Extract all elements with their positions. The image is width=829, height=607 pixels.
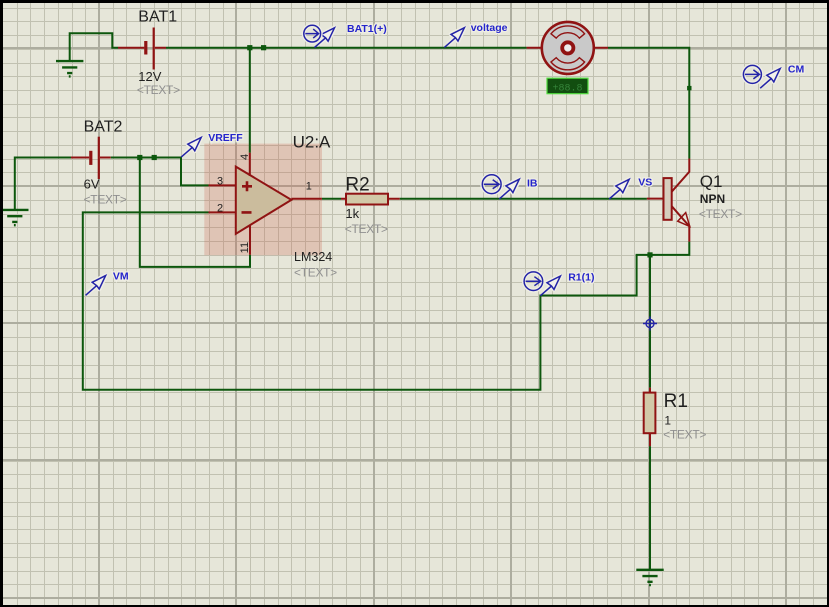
svg-text:VM: VM bbox=[113, 271, 129, 283]
svg-text:NPN: NPN bbox=[700, 192, 725, 206]
svg-text:Q1: Q1 bbox=[700, 172, 723, 191]
svg-text:R2: R2 bbox=[345, 174, 369, 195]
svg-text:6V: 6V bbox=[84, 177, 100, 192]
svg-text:BAT1: BAT1 bbox=[138, 9, 177, 26]
svg-text:U2:A: U2:A bbox=[293, 133, 331, 152]
svg-text:3: 3 bbox=[217, 176, 223, 188]
svg-text:R1: R1 bbox=[664, 391, 688, 412]
svg-text:1: 1 bbox=[664, 414, 671, 428]
svg-text:<TEXT>: <TEXT> bbox=[699, 207, 742, 221]
svg-text:IB: IB bbox=[527, 178, 538, 190]
svg-text:R1(1): R1(1) bbox=[568, 272, 594, 284]
svg-text:<TEXT>: <TEXT> bbox=[137, 83, 180, 97]
svg-text:CM: CM bbox=[788, 63, 805, 75]
svg-text:VREFF: VREFF bbox=[208, 132, 243, 144]
svg-text:BAT1(+): BAT1(+) bbox=[347, 23, 387, 35]
svg-text:LM324: LM324 bbox=[294, 250, 332, 264]
svg-text:<TEXT>: <TEXT> bbox=[345, 222, 388, 236]
svg-text:voltage: voltage bbox=[471, 22, 508, 34]
svg-text:<TEXT>: <TEXT> bbox=[663, 428, 706, 442]
svg-text:<TEXT>: <TEXT> bbox=[84, 193, 127, 207]
svg-text:1: 1 bbox=[306, 181, 312, 193]
svg-text:<TEXT>: <TEXT> bbox=[294, 266, 337, 280]
svg-text:1k: 1k bbox=[345, 206, 359, 221]
svg-text:11: 11 bbox=[239, 242, 251, 253]
svg-text:4: 4 bbox=[239, 154, 251, 160]
svg-text:+88.8: +88.8 bbox=[552, 84, 582, 95]
svg-text:2: 2 bbox=[217, 202, 223, 214]
svg-text:12V: 12V bbox=[138, 69, 161, 84]
svg-text:BAT2: BAT2 bbox=[84, 119, 123, 136]
svg-text:VS: VS bbox=[638, 176, 652, 188]
